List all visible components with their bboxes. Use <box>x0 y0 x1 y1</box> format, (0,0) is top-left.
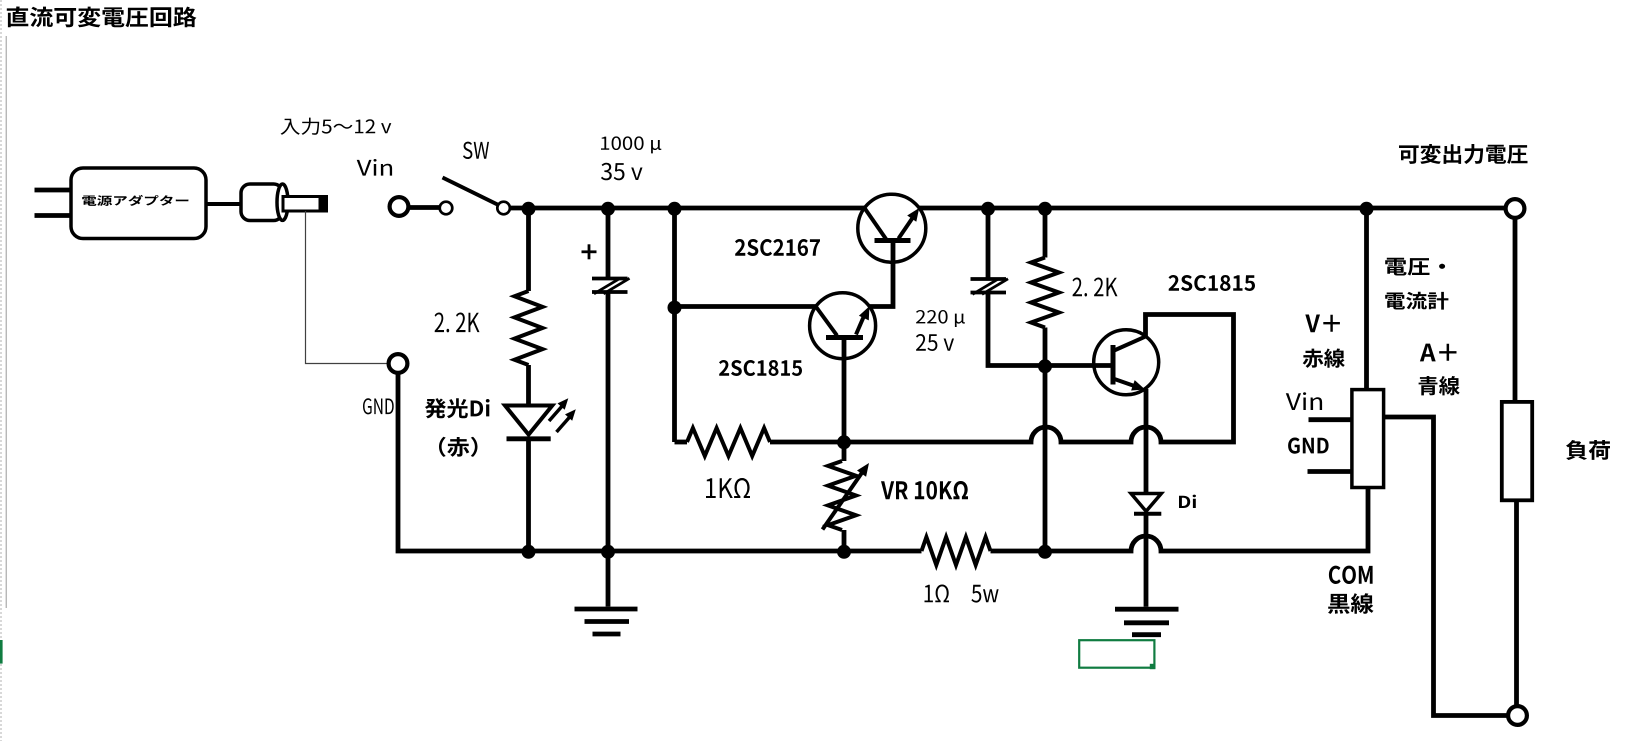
label + (1000u polarity) <box>582 244 597 259</box>
label 2SC1815 (right) <box>1169 275 1256 291</box>
LED light arrow 2 <box>557 409 576 432</box>
wire R 1K to VR node <box>770 440 844 445</box>
wire output terminal down to load <box>1513 218 1518 402</box>
power adapter lead lower <box>35 213 72 218</box>
wire top bus (2SC2167 emitter to output terminal) <box>919 206 1505 211</box>
capacitor C 220u plates <box>971 279 1009 295</box>
wire node B down to 1K corner <box>672 208 677 442</box>
wire LED to bottom bus <box>526 439 531 551</box>
wire top bus down to C 220u <box>986 208 991 279</box>
excel selection rectangle <box>1079 640 1154 668</box>
diode Di cathode bar <box>1134 512 1161 516</box>
transistor Q2 base bar <box>826 335 863 340</box>
wire VR node to hop then Q3 collector loop <box>844 315 1234 443</box>
load 負荷 box <box>1502 402 1532 500</box>
transistor Q1 collector diagonal <box>865 208 887 239</box>
wire R 2.2K to LED <box>526 365 531 406</box>
wire top bus down to meter <box>1364 208 1369 390</box>
junction dot node R2.2K right bottom <box>1038 545 1052 559</box>
label 黒線 <box>1328 593 1374 614</box>
label 電圧・ <box>1385 258 1445 276</box>
switch SW lever <box>443 178 501 207</box>
label GND (input) <box>363 398 394 414</box>
wire top bus down to C 1000u <box>606 208 611 278</box>
transistor Q1 2SC2167 circle <box>858 194 926 262</box>
excel selection fill handle <box>1150 664 1156 669</box>
excel selected-row green edge mark <box>0 640 3 664</box>
label V＋ <box>1305 315 1340 333</box>
label （赤） <box>439 437 478 457</box>
junction dot node VR top <box>837 435 851 449</box>
LED cathode bar <box>507 436 551 441</box>
junction dot node VR bottom <box>837 545 851 559</box>
terminal GND circle <box>389 354 408 373</box>
transistor Q1 emitter arrow <box>899 208 920 239</box>
label 可変出力電圧 <box>1399 144 1528 164</box>
excel page-break dashed line <box>0 0 2 741</box>
meter GND lead <box>1308 469 1352 474</box>
ground symbol (right) <box>1115 609 1179 635</box>
wire node A down to R 2.2K <box>526 208 531 291</box>
capacitor C 1000u plates <box>592 278 630 294</box>
terminal Vin circle <box>390 197 409 216</box>
meter Vin lead <box>1309 417 1352 422</box>
label GND (meter) <box>1288 438 1329 454</box>
label Vin (input terminal) <box>357 159 392 176</box>
switch SW contact circle left <box>440 202 453 215</box>
label 2SC1815 (middle) <box>719 360 802 376</box>
label 1Ω 5w <box>925 585 999 603</box>
power adapter lead upper <box>35 188 72 193</box>
label Di <box>1179 495 1196 508</box>
wire Vin terminal to switch contact <box>410 205 441 210</box>
label 電流計 <box>1385 292 1448 310</box>
ground symbol (left) <box>575 609 638 634</box>
junction dot node B mid <box>668 301 682 315</box>
resistor 1K <box>687 428 770 456</box>
VR 10K wiper arrow <box>823 463 870 530</box>
transistor Q3 2SC1815 circle <box>1094 330 1159 395</box>
transistor Q2 emitter arrow <box>856 306 869 334</box>
wire VR top lead <box>842 442 847 462</box>
plug tip <box>283 197 327 212</box>
label 電源アダプター <box>82 195 188 206</box>
label 入力5～12 v <box>281 118 392 135</box>
resistor 2.2K (right) <box>1031 258 1059 328</box>
junction dot node cap1000 bottom <box>601 545 615 559</box>
resistor 2.2K (left) <box>515 291 543 365</box>
label 発光Di <box>425 398 490 418</box>
diode Di triangle <box>1131 494 1161 512</box>
wire C 220u down and right to node C <box>988 292 1045 365</box>
junction dot node C <box>1038 359 1052 373</box>
label VR 10KΩ <box>881 481 968 500</box>
resistor 1 ohm 5w <box>922 537 991 565</box>
junction dot node A <box>522 202 536 216</box>
label 赤線 <box>1303 349 1345 368</box>
wire Q1 base down and left to Q2 emitter <box>869 241 893 307</box>
label 25 v <box>916 334 954 351</box>
wire Q2 collector down to VR node <box>842 338 847 442</box>
wire GND terminal down and bottom bus to R 1ohm <box>398 374 922 551</box>
wire switch to node A <box>510 206 531 211</box>
junction dot node meter top <box>1360 202 1374 216</box>
label 青線 <box>1419 376 1460 395</box>
label 2SC2167 <box>735 239 820 256</box>
label 2. 2K (left) <box>435 313 480 333</box>
wire load down to output - terminal <box>1514 500 1519 706</box>
transistor Q2 2SC1815 circle <box>810 293 876 359</box>
junction dot node LED bottom <box>522 545 536 559</box>
wire bottom bus hop over diode line to COM <box>991 488 1369 552</box>
label SW <box>463 142 489 159</box>
transistor Q3 base bar <box>1111 345 1116 385</box>
label 1000 μ <box>601 136 661 153</box>
volt/ammeter body <box>1352 390 1384 488</box>
transistor Q1 base bar <box>875 238 911 243</box>
junction dot node B top <box>668 202 682 216</box>
terminal output - circle <box>1508 706 1527 725</box>
label 負荷 <box>1566 440 1610 460</box>
junction dot node cap1000 top <box>601 202 615 216</box>
terminal output + circle <box>1506 199 1525 218</box>
wire VR bottom lead <box>842 530 847 551</box>
wire node C to Q3 base <box>1045 363 1113 368</box>
wire diode Di down to ground (right) <box>1144 514 1149 607</box>
title text 直流可変電圧回路 <box>7 7 197 28</box>
label 1KΩ <box>706 478 750 498</box>
wire node B to Q2 base <box>675 304 816 309</box>
wire Q3 emitter down to diode Di <box>1144 389 1149 494</box>
LED 発光Di triangle <box>505 406 552 435</box>
transistor Q3 collector diagonal <box>1113 337 1146 352</box>
label 2. 2K (right) <box>1073 278 1118 297</box>
power adapter box <box>71 168 206 239</box>
junction dot node cap220 top <box>981 202 995 216</box>
wire node B corner to R 1K <box>675 440 688 445</box>
wire R 2.2K (right) down to bottom bus <box>1043 328 1048 552</box>
sheet column border line <box>5 36 7 608</box>
transistor Q2 base diagonal <box>816 307 837 336</box>
label Vin (meter) <box>1286 392 1322 410</box>
junction dot node R2.2K right top <box>1038 202 1052 216</box>
label 35 v <box>601 163 643 181</box>
wire adapter to plug <box>206 202 243 206</box>
plug barrel mouth ellipse <box>277 184 288 220</box>
transistor Q3 emitter arrow <box>1113 379 1145 391</box>
wire bottom bus to ground (left) <box>606 551 611 607</box>
switch SW contact circle right <box>497 202 510 215</box>
variable resistor VR 10K zigzag <box>828 461 856 530</box>
LED light arrow 1 <box>549 398 568 421</box>
wire top bus down to R 2.2K (right) <box>1043 208 1048 258</box>
wire C 1000u to bottom bus <box>606 292 611 551</box>
wire meter A+ to output circle (blue wire) <box>1384 417 1508 716</box>
plug tip end cap <box>319 197 327 212</box>
wire top bus (node A to 2SC2167 collector) <box>531 206 865 211</box>
thin wire plug sleeve down and to GND terminal <box>306 211 388 364</box>
label 220 μ <box>916 310 965 327</box>
plug barrel body <box>241 184 283 221</box>
label COM <box>1329 566 1373 584</box>
label A＋ <box>1420 344 1457 362</box>
